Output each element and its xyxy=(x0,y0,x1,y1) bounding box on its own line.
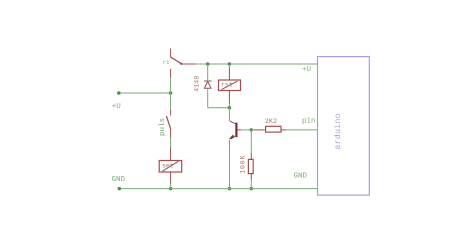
node: 100K / GND rail xyxy=(250,187,254,191)
wire: coil bottom lead xyxy=(228,91,230,104)
wire: base junction to 2K2 xyxy=(251,129,254,131)
resistor R1 2K2 xyxy=(266,126,281,132)
wire: 2K2 to arduino pin xyxy=(281,129,286,131)
svg-text:rst: rst xyxy=(221,82,233,89)
relay coil rst xyxy=(219,80,241,91)
svg-text:4148: 4148 xyxy=(194,76,202,92)
wire: emitter down xyxy=(229,140,231,189)
wire: 100K top lead xyxy=(250,130,252,153)
node: rail / coil junction xyxy=(228,62,232,66)
node: rail / diode junction xyxy=(206,62,210,66)
diode D1 1N4148 xyxy=(204,81,212,88)
svg-text:set: set xyxy=(162,163,174,170)
wire: base to junction xyxy=(241,129,251,131)
switch puls (pushbutton) xyxy=(166,110,170,138)
wire: diode top lead xyxy=(207,64,209,80)
svg-text:+U: +U xyxy=(302,66,311,74)
wire: +U horizontal feed xyxy=(119,92,171,94)
node: base / R divider junction xyxy=(250,128,254,132)
svg-text:+U: +U xyxy=(112,103,121,111)
wire: puls top lead xyxy=(170,93,172,110)
wire: diode to coil bottom link xyxy=(208,107,230,109)
node: GND rail left end xyxy=(118,187,122,191)
wire: GND rail xyxy=(119,188,318,190)
node: junction +U / r1 / puls xyxy=(169,91,173,95)
wire: r1 lower lead to junction xyxy=(170,78,172,94)
wire: set coil to GND rail xyxy=(170,172,172,184)
transistor Q1 (NPN) xyxy=(229,121,241,139)
svg-text:GND: GND xyxy=(294,173,308,181)
svg-text:pin: pin xyxy=(302,117,316,125)
module U1 arduino xyxy=(318,57,370,196)
wire: diode bottom lead xyxy=(207,89,209,108)
node: emitter / GND rail xyxy=(228,187,232,191)
node: set coil / GND rail xyxy=(169,187,173,191)
svg-text:100K: 100K xyxy=(239,155,246,174)
node: +U left end dot xyxy=(117,91,121,95)
svg-text:puls: puls xyxy=(159,118,167,136)
svg-text:GND: GND xyxy=(112,176,126,184)
resistor R2 100K xyxy=(248,159,253,173)
node: coil / diode / collector junction xyxy=(228,106,232,110)
wire: top +U rail xyxy=(196,63,318,65)
switch r1 (relay contact) xyxy=(171,49,196,78)
relay coil set xyxy=(159,161,182,173)
wire: 100K bottom lead xyxy=(250,174,252,179)
svg-text:2K2: 2K2 xyxy=(265,118,277,126)
svg-text:r1: r1 xyxy=(163,59,170,66)
wire: puls to set coil xyxy=(170,138,172,148)
wire: collector feed xyxy=(228,108,230,121)
wire: coil top lead xyxy=(228,64,230,68)
svg-text:arduino: arduino xyxy=(334,113,343,149)
